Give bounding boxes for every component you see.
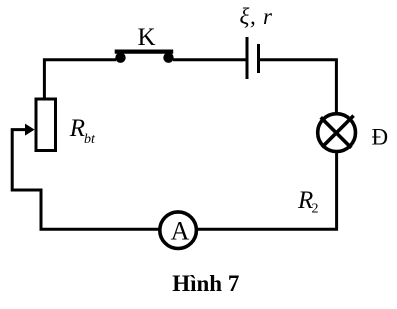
svg-text:bt: bt xyxy=(84,132,96,147)
svg-text:A: A xyxy=(171,217,190,246)
svg-text:Đ: Đ xyxy=(372,125,389,150)
svg-text:ξ, r: ξ, r xyxy=(240,4,273,29)
svg-text:Hình 7: Hình 7 xyxy=(172,271,239,296)
svg-text:2: 2 xyxy=(312,202,319,217)
svg-text:K: K xyxy=(137,24,155,51)
svg-text:R: R xyxy=(69,115,85,142)
